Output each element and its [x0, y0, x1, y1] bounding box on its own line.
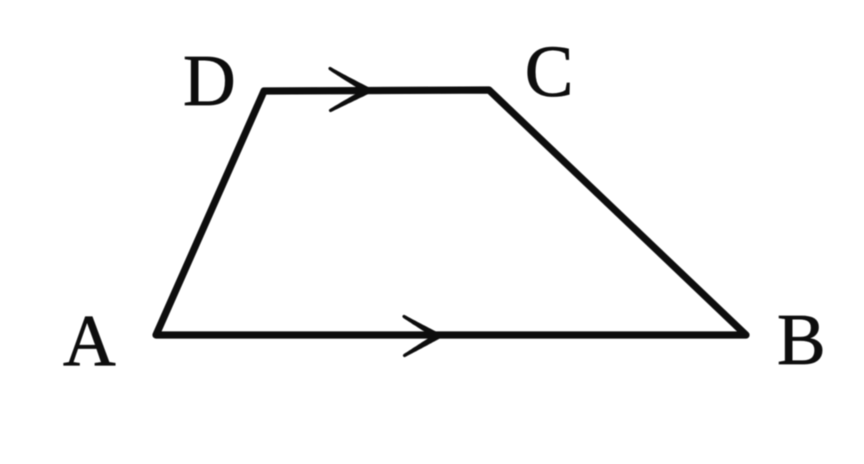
top arrow upper barb [328, 67, 371, 94]
trapezoid ABCD outline [156, 90, 746, 335]
bottom arrow upper barb [402, 315, 440, 339]
top arrow lower barb [329, 87, 371, 112]
svg-text:A: A [63, 300, 116, 381]
svg-text:D: D [183, 40, 236, 121]
bottom arrow lower barb [403, 333, 441, 357]
svg-text:B: B [777, 299, 826, 380]
svg-text:C: C [525, 31, 574, 112]
